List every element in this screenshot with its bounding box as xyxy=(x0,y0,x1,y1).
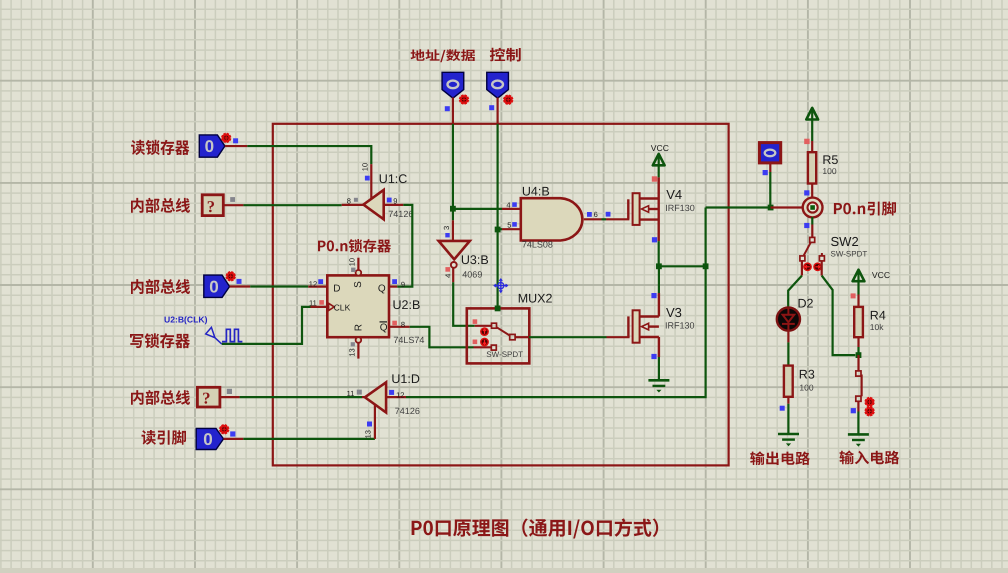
svg-text:10: 10 xyxy=(348,258,357,266)
label 控制 xyxy=(490,48,521,62)
U2:B Qbar stub pin 8 xyxy=(389,326,410,328)
SW2 right throw contact xyxy=(819,256,824,261)
wire VCC to R5 xyxy=(811,120,813,142)
wire 读锁存器 to U1:C enable xyxy=(247,146,371,164)
label 输出电路 xyxy=(750,451,810,465)
marker star 内部总线 middle xyxy=(226,272,235,281)
wire U4:B to V4 gate xyxy=(602,218,607,220)
svg-text:10: 10 xyxy=(361,163,370,171)
U4:B output stub pin 6 xyxy=(584,218,602,220)
U1:D output stub pin 12 xyxy=(386,396,406,398)
ground input circuit xyxy=(848,433,869,436)
svg-text:SW2: SW2 xyxy=(831,234,859,249)
svg-text:VCC: VCC xyxy=(872,270,890,280)
switch SW2 common contact xyxy=(810,237,815,242)
input switch marker star top xyxy=(865,397,874,406)
ground output circuit xyxy=(778,433,799,436)
U1:C enable pin square xyxy=(365,176,370,181)
MUX2 bottom throw stub xyxy=(474,346,492,348)
input switch pin square xyxy=(851,408,856,413)
U2:B D stub pin 12 xyxy=(308,286,327,288)
wire SW2 left throw down xyxy=(801,261,803,276)
terminal 读锁存器 xyxy=(199,135,225,157)
U2:B S bump xyxy=(356,270,362,276)
wire 读引脚 to U1:D enable xyxy=(243,438,375,440)
wire 控制 down to MUX2 xyxy=(497,230,499,309)
junction MUX2 select xyxy=(495,306,501,312)
wire U4 pin5 stub xyxy=(502,228,521,230)
wire 地址/数据 vertical xyxy=(452,124,454,209)
wire SW2 right throw down xyxy=(821,261,823,276)
MUX2 lever xyxy=(497,327,511,336)
U1:D output pin square xyxy=(389,390,394,395)
svg-text:12: 12 xyxy=(309,280,317,289)
svg-text:4: 4 xyxy=(444,274,453,278)
terminal 内部总线 middle xyxy=(204,275,230,297)
U2:B R stub xyxy=(357,343,359,359)
MUX2 pole stub xyxy=(515,336,529,338)
junction output node xyxy=(703,263,709,269)
label 内部总线 bottom xyxy=(131,390,190,405)
junction P0.n node xyxy=(768,205,774,211)
flip-flop U2:B xyxy=(327,275,389,337)
wire U4 pin4 stub xyxy=(502,208,521,210)
svg-text:4069: 4069 xyxy=(462,269,482,279)
U3:B input stub pin 3 xyxy=(452,220,454,241)
logic probe ? top xyxy=(202,195,223,216)
wire 地址/数据 stub xyxy=(452,98,454,124)
U2:B Q pin square xyxy=(392,279,397,284)
V4 drain pin square xyxy=(652,176,657,181)
svg-text:Q: Q xyxy=(380,322,388,333)
U2:B R bump xyxy=(356,337,362,343)
label 地址/数据 xyxy=(411,49,476,62)
wire node to P0.n junction xyxy=(706,206,771,208)
svg-text:6: 6 xyxy=(594,210,598,219)
wire 地址/数据 to U4 pin4 xyxy=(453,208,502,210)
MUX2 pole contact xyxy=(510,334,515,339)
U3:B output pin square xyxy=(445,267,450,272)
svg-text:0: 0 xyxy=(209,278,218,297)
resistor R5 xyxy=(808,152,816,183)
SW2 lever xyxy=(804,242,811,255)
pin square 内部总线 middle xyxy=(237,279,242,284)
wire R4 to node xyxy=(857,347,859,355)
logic probe ? bottom xyxy=(197,387,220,407)
U2:B Qbar pin square xyxy=(392,321,397,326)
svg-text:3: 3 xyxy=(442,226,451,230)
svg-text:IRF130: IRF130 xyxy=(665,321,695,331)
probe pin square xyxy=(763,170,768,175)
svg-text:9: 9 xyxy=(393,196,397,205)
U1:D enable pin square xyxy=(367,422,372,427)
svg-text:R: R xyxy=(354,324,365,331)
wire 地址/数据 down to U3:B xyxy=(452,209,454,221)
label 内部总线 top xyxy=(131,198,190,213)
label 输入电路 xyxy=(840,451,900,465)
junction 控制 node xyxy=(495,227,501,233)
wire V3 source to ground xyxy=(658,357,660,381)
svg-text:IRF130: IRF130 xyxy=(665,203,695,213)
svg-text:D2: D2 xyxy=(798,297,814,311)
U2:B R grey square xyxy=(351,342,355,346)
svg-text:100: 100 xyxy=(799,382,813,392)
V3 drain pin square xyxy=(651,293,656,298)
power VCC R5 xyxy=(806,108,818,120)
wire SW2 left to D2 xyxy=(788,276,802,308)
svg-text:U4:B: U4:B xyxy=(522,184,550,198)
wire junction to pin circle xyxy=(771,206,810,208)
U4:B pin4 square xyxy=(512,202,517,207)
wire output node up to pin xyxy=(704,208,706,267)
svg-text:74LS74: 74LS74 xyxy=(393,335,424,345)
U1:D input stub pin 11 xyxy=(362,396,365,398)
svg-text:SW-SPDT: SW-SPDT xyxy=(831,250,868,259)
wire R3 to ground xyxy=(787,404,789,434)
wire 读锁存器 stub xyxy=(225,145,247,147)
svg-text:9: 9 xyxy=(401,280,405,289)
wire pin to SW2 xyxy=(811,217,813,225)
MUX2 toggle down xyxy=(480,338,489,347)
wire 控制 stub xyxy=(497,98,499,124)
wire probe down xyxy=(769,172,771,208)
wire U3:B output to MUX2 xyxy=(453,282,475,326)
MUX2 bottom pin square xyxy=(473,340,478,345)
label 内部总线 middle xyxy=(131,279,190,294)
wire 内部总线 middle stub xyxy=(230,285,251,287)
mosfet V3 xyxy=(628,293,659,357)
svg-text:VCC: VCC xyxy=(651,143,669,153)
terminal 读引脚 xyxy=(196,428,223,449)
wire 读引脚 stub xyxy=(224,438,244,440)
U2:B Q stub pin 9 xyxy=(389,286,397,288)
MUX2 top pin square xyxy=(473,319,478,324)
svg-text:V3: V3 xyxy=(666,305,682,320)
svg-text:Q: Q xyxy=(378,284,386,295)
svg-text:100: 100 xyxy=(822,166,836,176)
logic probe square xyxy=(759,143,780,163)
and gate U4:B xyxy=(521,198,583,240)
input switch bottom stub xyxy=(857,401,859,411)
svg-text:?: ? xyxy=(202,389,210,408)
terminal 控制 xyxy=(487,72,509,98)
U1:C output stub pin 9 xyxy=(384,204,404,206)
svg-text:8: 8 xyxy=(347,197,351,206)
wire input switch to ground xyxy=(857,412,859,435)
svg-text:74126: 74126 xyxy=(395,406,420,416)
SW2 common pin square xyxy=(804,223,809,228)
V4 gate pin square xyxy=(606,212,611,217)
svg-text:MUX2: MUX2 xyxy=(518,292,553,306)
svg-text:11: 11 xyxy=(309,299,317,308)
wire 控制 vertical xyxy=(497,124,499,230)
U2:B CLK pin square xyxy=(319,300,324,305)
svg-text:R3: R3 xyxy=(799,367,815,381)
svg-text:0: 0 xyxy=(205,137,214,156)
wire 内部总线 top to U1:C xyxy=(243,204,341,206)
input switch lever xyxy=(860,375,862,397)
svg-text:13: 13 xyxy=(363,430,372,438)
R5 top pin square xyxy=(804,139,809,144)
V4 source pin square xyxy=(652,237,657,242)
svg-text:74126: 74126 xyxy=(388,209,413,219)
input switch bottom contact xyxy=(856,396,861,401)
terminal 地址/数据 xyxy=(442,72,464,98)
wire U1:C output to U2:B Q xyxy=(397,205,412,287)
clock generator symbol xyxy=(206,327,243,344)
svg-text:4: 4 xyxy=(506,200,510,209)
svg-text:U3:B: U3:B xyxy=(461,253,489,267)
pin square grey ? bottom xyxy=(227,389,232,394)
SW2 toggle left xyxy=(803,262,812,271)
svg-text:V4: V4 xyxy=(666,187,682,202)
U2:B D pin square xyxy=(318,279,323,284)
svg-text:S: S xyxy=(353,281,364,288)
led D2 xyxy=(777,308,800,331)
title P0口原理图 xyxy=(412,518,659,538)
wire U2:B Qbar to MUX2 xyxy=(410,327,474,348)
U4:B output pin square xyxy=(587,212,592,217)
resistor R3 xyxy=(784,366,793,397)
svg-text:R5: R5 xyxy=(822,153,838,167)
R3 bottom stub xyxy=(787,397,789,404)
buffer U1:D xyxy=(365,382,386,412)
svg-text:12: 12 xyxy=(396,390,404,399)
input switch top contact xyxy=(856,371,861,376)
MUX2 top throw stub xyxy=(475,325,492,327)
mosfet V4 xyxy=(628,177,658,241)
SW2 left throw contact xyxy=(800,256,805,261)
svg-text:D: D xyxy=(333,284,340,295)
pad P0.n pin xyxy=(803,198,823,218)
label 读锁存器 xyxy=(131,140,189,155)
wire 控制 to U4 pin5 xyxy=(498,228,502,230)
SW2 common stub xyxy=(811,225,813,238)
svg-text:0: 0 xyxy=(203,430,212,449)
wire D2 to R3 xyxy=(787,342,789,365)
marker star 读引脚 xyxy=(220,425,229,434)
pin square 地址/数据 xyxy=(445,106,450,111)
label 写锁存器 xyxy=(130,333,190,348)
MUX2 bottom throw contact xyxy=(491,345,496,350)
wire VCC to V4 drain xyxy=(658,165,660,177)
input switch marker star bottom xyxy=(865,407,874,416)
MUX2 toggle up xyxy=(480,327,489,336)
power VCC V4 xyxy=(653,154,665,165)
wire ? top stub xyxy=(223,204,243,206)
junction 地址/数据 node xyxy=(450,206,456,212)
input switch top stub xyxy=(857,355,859,371)
svg-text:74LS08: 74LS08 xyxy=(522,240,553,250)
wire 写锁存器 to U2:B CLK xyxy=(222,307,311,344)
svg-text:U1:C: U1:C xyxy=(379,172,407,186)
wire V4 source down xyxy=(658,241,660,266)
svg-text:8: 8 xyxy=(401,320,405,329)
probe stub xyxy=(769,163,771,172)
wire U2:B CLK stub xyxy=(311,306,329,308)
wire V3 drain up xyxy=(658,266,660,293)
SW2 right throw stub xyxy=(821,253,823,256)
power VCC SW2 xyxy=(853,270,865,282)
buffer U1:C xyxy=(363,190,383,219)
marker star 控制 xyxy=(504,95,513,104)
svg-text:10k: 10k xyxy=(870,322,884,332)
svg-text:?: ? xyxy=(207,197,215,216)
R5 top stub xyxy=(811,141,813,152)
U1:D pin 11 grey square xyxy=(357,390,362,395)
wire 内部总线 middle to U2:B D xyxy=(250,285,308,287)
inverter U3:B xyxy=(439,241,470,260)
svg-text:11: 11 xyxy=(347,389,355,398)
pin square 控制 xyxy=(489,105,494,110)
svg-text:CLK: CLK xyxy=(334,303,351,313)
wire MUX2 pole to V3 gate xyxy=(529,336,607,338)
R5 bottom stub xyxy=(811,184,813,199)
R4 bottom stub xyxy=(857,337,859,347)
U2:B S grey square xyxy=(351,268,355,272)
U3:B input pin square xyxy=(445,233,449,237)
svg-text:U1:D: U1:D xyxy=(391,372,419,386)
U3:B output stub xyxy=(452,268,454,283)
U2:B S stub xyxy=(357,258,359,270)
V3 source pin square xyxy=(651,354,656,359)
SW2 toggle right xyxy=(813,262,822,271)
pin square grey ? top xyxy=(230,197,235,202)
label P0.n锁存器 xyxy=(318,239,391,253)
V4 gate stub xyxy=(606,218,629,220)
MUX2 top throw contact xyxy=(492,323,497,328)
label P0.n引脚 xyxy=(834,202,896,216)
outline box xyxy=(273,124,729,466)
U1:D enable stub pin 13 xyxy=(374,404,376,439)
R4 top stub xyxy=(857,295,859,307)
junction R4 node xyxy=(856,352,862,358)
marker star 地址/数据 xyxy=(459,95,468,104)
svg-text:5: 5 xyxy=(507,220,511,229)
V3 gate stub xyxy=(607,336,630,338)
U1:C output pin square xyxy=(387,198,392,203)
label 读引脚 xyxy=(142,430,187,445)
switch MUX2 box xyxy=(467,308,530,363)
svg-text:U2:B(CLK): U2:B(CLK) xyxy=(164,314,208,324)
junction V4 source node xyxy=(656,263,662,269)
svg-text:SW-SPDT: SW-SPDT xyxy=(486,350,523,359)
MUX2 origin marker xyxy=(494,279,507,292)
U1:C pin 8 grey square xyxy=(354,198,358,202)
wire U1:D output feedback xyxy=(406,266,706,397)
pin square 读引脚 xyxy=(230,431,235,436)
U1:C enable stub xyxy=(370,164,372,199)
wire 内部总线 bottom to U1:D xyxy=(240,396,362,398)
U4:B pin5 square xyxy=(512,222,517,227)
resistor R4 xyxy=(854,307,863,337)
R5 bottom pin square xyxy=(804,190,809,195)
wire VCC to R4 xyxy=(857,281,859,294)
wire ? bottom stub xyxy=(220,396,240,398)
D2 bottom stub xyxy=(787,331,789,343)
svg-text:R4: R4 xyxy=(870,309,886,323)
svg-text:U2:B: U2:B xyxy=(393,298,421,312)
wire SW2 right to R4 node xyxy=(822,276,856,356)
wire output node horizontal xyxy=(659,265,706,267)
marker star 读锁存器 xyxy=(222,133,231,142)
svg-text:13: 13 xyxy=(347,348,356,356)
R3 bottom pin square xyxy=(780,406,785,411)
ground V3 xyxy=(648,379,669,382)
R4 top pin square xyxy=(851,293,856,298)
pin square 读锁存器 xyxy=(233,138,238,143)
U1:C input stub pin 8 xyxy=(342,204,364,206)
